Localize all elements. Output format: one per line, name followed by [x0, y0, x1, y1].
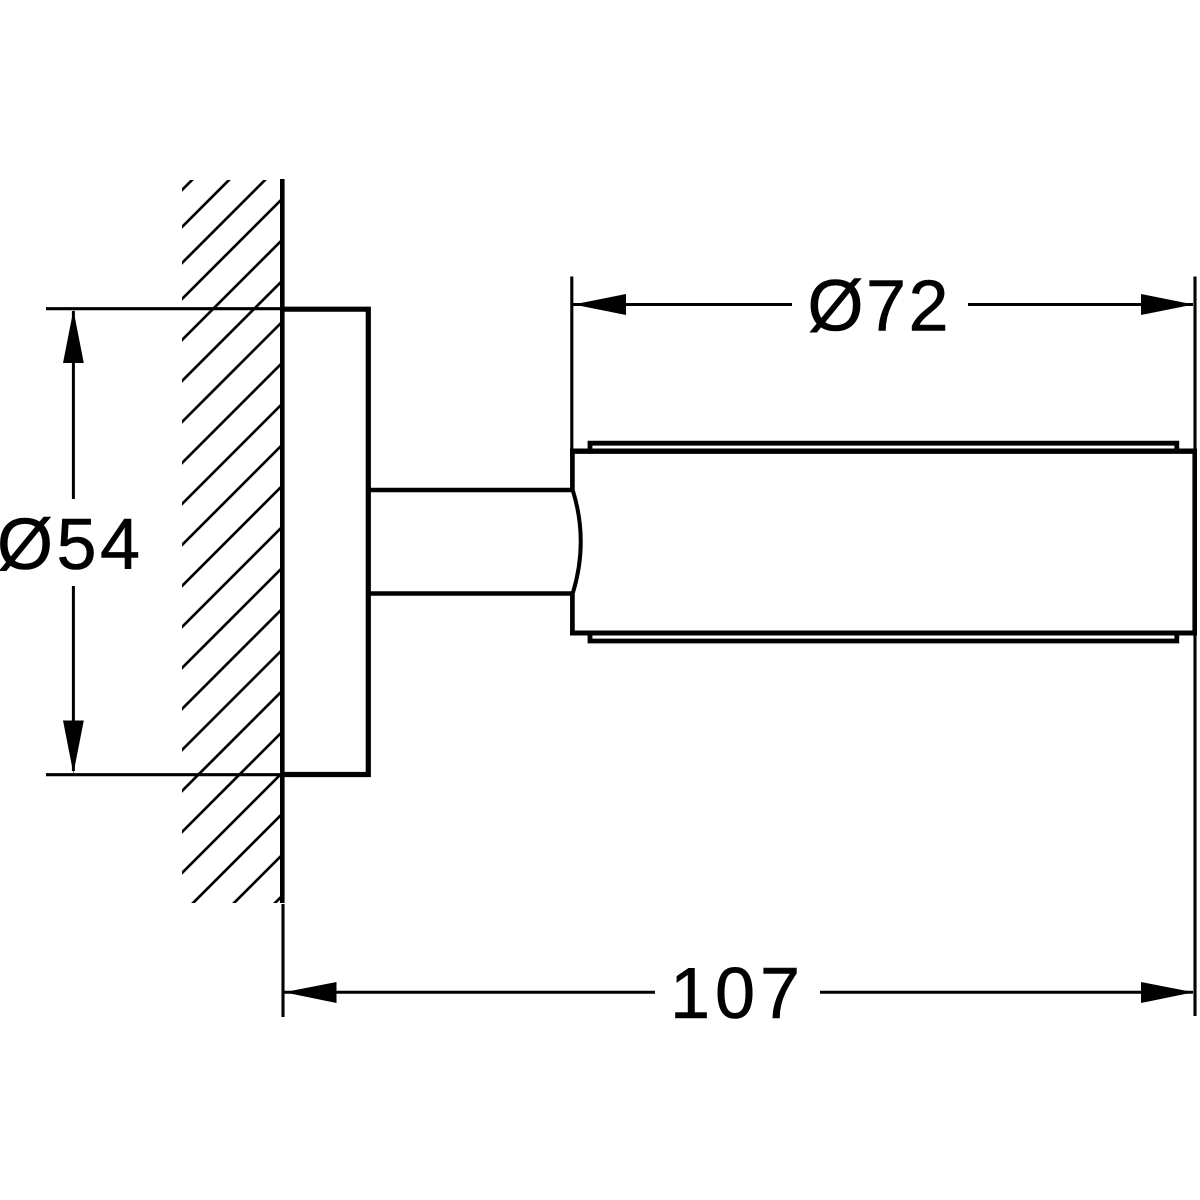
holder arm top edge	[368, 488, 574, 493]
dimension 107 line right segment	[820, 991, 1193, 994]
dimension Ø54 line lower segment	[72, 586, 75, 771]
wall hatching	[177, 85, 287, 1001]
dimension Ø72 and 107 shared right extension line	[1193, 277, 1196, 1017]
holder top lip	[590, 443, 1177, 452]
dimension Ø72 left extension line	[570, 277, 573, 450]
holder arm bottom edge	[368, 591, 574, 596]
svg-text:107: 107	[670, 954, 800, 1034]
dimension Ø54 bottom extension line	[46, 773, 284, 776]
dimension 107 arrow right	[1141, 982, 1194, 1003]
holder body left edge upper segment	[570, 449, 575, 493]
dimension Ø72 line right segment	[968, 303, 1193, 306]
dimension 107 arrow left	[284, 982, 337, 1003]
dimension Ø54 arrow up	[63, 310, 84, 363]
wall plate (rosette) outline	[281, 309, 369, 774]
svg-text:Ø54: Ø54	[0, 505, 140, 585]
dimension 107 left extension line	[281, 904, 284, 1017]
svg-text:Ø72: Ø72	[808, 267, 949, 347]
dimension Ø72 line left segment	[573, 303, 792, 306]
holder bottom lip	[590, 632, 1177, 642]
arm-to-holder transition curve	[573, 491, 581, 593]
dimension Ø72 arrow right	[1141, 294, 1194, 315]
holder body right edge	[1192, 449, 1197, 636]
dimension Ø54 line upper segment	[72, 311, 75, 499]
dimension Ø54 arrow down	[63, 721, 84, 774]
dimension Ø54 top extension line	[46, 307, 284, 310]
dimension Ø72 arrow left	[574, 294, 627, 315]
holder body left edge lower segment	[570, 592, 575, 636]
holder body top edge	[570, 449, 1197, 454]
dimension 107 line left segment	[284, 991, 655, 994]
wall line	[280, 179, 285, 903]
holder body bottom edge	[570, 631, 1197, 636]
